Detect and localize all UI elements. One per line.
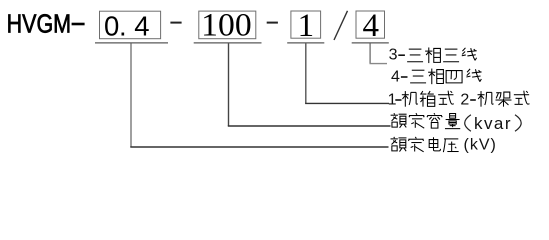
svg-text:HVGM: HVGM [7, 10, 71, 38]
box S1 (structure 1) [291, 11, 321, 38]
svg-text:100: 100 [201, 8, 252, 44]
leader wire L3 (box 1 to structure label) [305, 44, 307, 104]
label row4: rated capacity (kvar) [391, 113, 407, 128]
leader wire L1 (box 0.4 to voltage label) [130, 44, 132, 148]
svg-text:4: 4 [363, 8, 380, 44]
fullwidth open paren [465, 115, 471, 131]
svg-text:3: 3 [389, 47, 398, 64]
svg-text:1: 1 [298, 8, 315, 44]
svg-text:1: 1 [388, 92, 397, 109]
separator dash 1 [170, 22, 181, 24]
box V1 (voltage 0.4) [100, 11, 161, 39]
underline U4 [352, 42, 389, 44]
fullwidth close paren [515, 115, 521, 131]
svg-text:4: 4 [134, 10, 149, 41]
prefix dash [72, 23, 85, 26]
underline U1 [95, 42, 168, 44]
underline U2 [194, 42, 262, 44]
box W1 (wiring 4) [356, 11, 385, 38]
box C1 (capacity 100) [199, 11, 256, 39]
leader wire L4 (box 4 to wiring labels) [369, 44, 371, 64]
svg-text:0: 0 [104, 10, 119, 41]
leader wire L2 (box 100 to capacity label) [228, 44, 230, 127]
svg-text:kvar: kvar [474, 114, 511, 133]
separator dash 2 [267, 22, 278, 24]
svg-text:4: 4 [391, 68, 400, 85]
underline U3 [287, 42, 324, 44]
svg-text:2: 2 [460, 92, 469, 109]
svg-text:(kV): (kV) [464, 136, 497, 153]
svg-text:.: . [119, 10, 127, 41]
slash separator [334, 11, 348, 40]
label row5: rated voltage (kV) [391, 137, 407, 152]
